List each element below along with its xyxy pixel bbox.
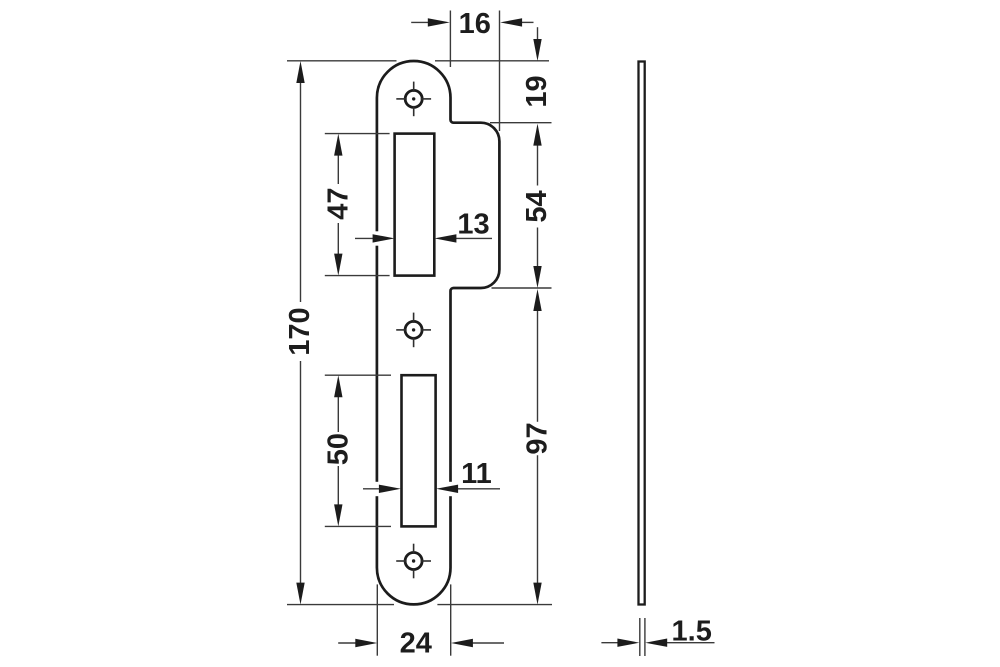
plate front view outline	[377, 61, 500, 604]
arrow 170 top (up)	[296, 61, 304, 83]
dim tail 16 left	[411, 21, 429, 23]
arrow 54 top (up)	[533, 124, 541, 146]
dim line 47	[337, 155, 339, 184]
dim line 97	[537, 310, 539, 422]
slot upper (13 x 47)	[395, 134, 435, 276]
dim tail 24 right	[472, 642, 505, 644]
svg-text:24: 24	[400, 628, 432, 660]
svg-text:19: 19	[521, 75, 553, 107]
dim tail 13 left	[355, 237, 374, 239]
arrow 16 left (right-pointing)	[428, 18, 450, 26]
arrow 11 left (right-pointing)	[379, 485, 401, 493]
extension line 1.5 left vertical	[639, 618, 641, 656]
dim tail 24 left	[338, 642, 356, 644]
slot lower (11 x 50)	[402, 375, 436, 526]
arrow 16 right (left-pointing)	[500, 18, 522, 26]
dim tail 1.5 right	[666, 642, 715, 644]
extension line slot2 top (50)	[325, 374, 391, 376]
dim tail 16 right	[521, 21, 534, 23]
arrow 19 top (down)	[533, 39, 541, 61]
arrow 11 right (left-pointing)	[436, 485, 458, 493]
dim line 170	[300, 82, 302, 302]
hole bottom	[396, 544, 431, 579]
dim tail 11 right	[457, 488, 500, 490]
extension line 24 left vertical	[376, 584, 378, 655]
extension line tab bottom right (54/97)	[492, 287, 552, 289]
dim line 50	[337, 396, 339, 432]
svg-text:170: 170	[284, 307, 316, 355]
svg-text:1.5: 1.5	[672, 615, 712, 647]
extension line 16 right vertical	[499, 11, 501, 132]
arrow 50 bottom (down)	[334, 504, 342, 526]
arrow 24 right (left-pointing)	[451, 639, 473, 647]
arrow 97 top (up)	[533, 289, 541, 311]
dim line 54	[537, 145, 539, 186]
arrow 47 bottom (down)	[334, 254, 342, 276]
svg-text:16: 16	[459, 8, 491, 40]
extension line 1.5 right vertical	[644, 618, 646, 656]
svg-text:97: 97	[522, 422, 554, 454]
arrow 13 left (right-pointing)	[373, 234, 395, 242]
arrow 1.5 left (right-pointing)	[617, 639, 639, 647]
extension line slot1 top (47)	[325, 133, 390, 135]
extension line bottom left (170)	[287, 604, 394, 606]
dim tail 13 right	[455, 237, 492, 239]
arrow 54 bottom (down)	[533, 266, 541, 288]
dim line 19 upper stub	[537, 27, 539, 40]
svg-text:11: 11	[461, 458, 492, 490]
extension line slot1 bottom (47)	[325, 275, 390, 277]
hole top	[396, 82, 431, 117]
hole middle	[396, 313, 431, 348]
arrow 13 right (left-pointing)	[434, 234, 456, 242]
arrow 47 top (up)	[334, 134, 342, 156]
arrow 1.5 right (left-pointing)	[645, 639, 667, 647]
side view plate (1.5 thick)	[639, 62, 645, 605]
svg-text:50: 50	[323, 433, 355, 465]
extension line bottom right (97)	[437, 604, 552, 606]
extension line top right (16/19)	[435, 60, 549, 62]
extension line slot2 bottom (50)	[325, 525, 391, 527]
dim tail 1.5 left	[601, 642, 618, 644]
svg-text:54: 54	[521, 190, 553, 222]
extension line 16 left vertical	[449, 11, 451, 68]
arrow 24 left (right-pointing)	[355, 639, 377, 647]
arrow 50 top (up)	[334, 375, 342, 397]
extension line top left (170/16)	[287, 60, 397, 62]
arrow 97 bottom (down)	[533, 583, 541, 605]
extension line 24 right vertical	[450, 584, 452, 655]
white gaps in plate edges where width arrows cross	[375, 231, 379, 245]
svg-text:13: 13	[457, 209, 489, 241]
arrow 170 bottom (down)	[296, 583, 304, 605]
extension line tab top right (19/54)	[490, 122, 552, 124]
dim tail 11 left	[363, 488, 380, 490]
svg-text:47: 47	[323, 187, 355, 219]
